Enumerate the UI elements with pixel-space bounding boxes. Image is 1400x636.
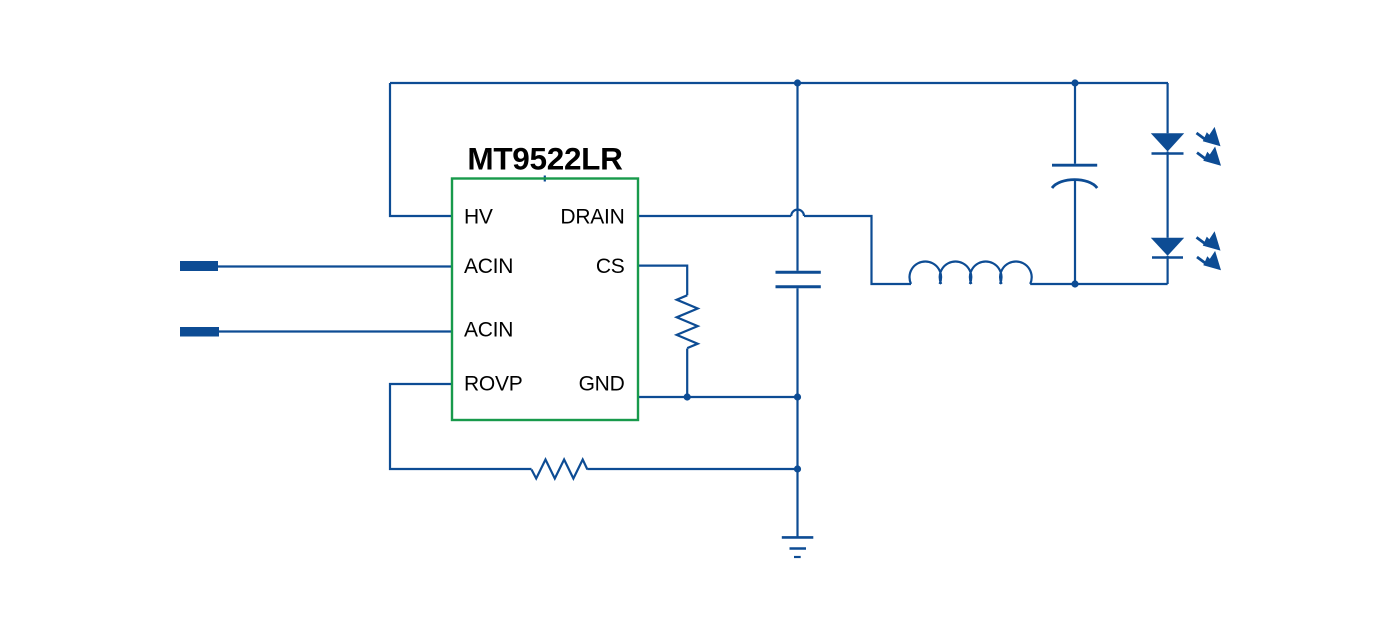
svg-text:ACIN: ACIN	[464, 255, 513, 278]
svg-text:MT9522LR: MT9522LR	[467, 140, 623, 176]
svg-text:HV: HV	[464, 205, 493, 228]
svg-text:GND: GND	[579, 372, 625, 395]
svg-text:DRAIN: DRAIN	[560, 205, 624, 228]
svg-text:ROVP: ROVP	[464, 372, 523, 395]
svg-text:CS: CS	[596, 255, 625, 278]
svg-text:ACIN: ACIN	[464, 318, 513, 341]
